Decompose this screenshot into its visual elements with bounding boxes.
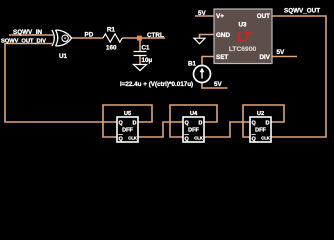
svg-text:R1: R1: [107, 27, 116, 34]
svg-text:Q: Q: [119, 137, 124, 143]
svg-text:DFF: DFF: [255, 128, 266, 134]
svg-text:CTRL: CTRL: [147, 32, 164, 39]
svg-text:5V: 5V: [277, 49, 286, 56]
svg-text:DIV: DIV: [260, 54, 271, 61]
svg-text:10µ: 10µ: [142, 57, 153, 64]
svg-text:SQWV_IN: SQWV_IN: [13, 29, 42, 36]
svg-text:D: D: [199, 121, 203, 127]
svg-text:5V: 5V: [214, 81, 223, 88]
svg-text:160: 160: [106, 45, 117, 52]
svg-text:Q: Q: [119, 121, 124, 127]
svg-text:Q: Q: [252, 121, 257, 127]
svg-text:5V: 5V: [198, 10, 207, 17]
svg-text:B1: B1: [188, 61, 197, 68]
svg-text:I=22.4u + (V(ctrl)*0.017u): I=22.4u + (V(ctrl)*0.017u): [120, 81, 193, 88]
svg-text:D: D: [133, 121, 137, 127]
svg-text:DFF: DFF: [188, 128, 199, 134]
svg-text:U4: U4: [190, 111, 198, 117]
svg-text:U5: U5: [124, 111, 131, 117]
svg-text:U1: U1: [59, 53, 68, 60]
svg-text:CLK: CLK: [194, 136, 203, 141]
svg-text:Q: Q: [185, 121, 190, 127]
svg-text:U3: U3: [238, 22, 247, 29]
svg-text:CLK: CLK: [128, 136, 137, 141]
svg-text:SET: SET: [216, 54, 228, 61]
svg-text:SQWV_OUT_DIV: SQWV_OUT_DIV: [1, 39, 46, 45]
svg-text:GND: GND: [216, 32, 230, 39]
svg-text:Q: Q: [185, 137, 190, 143]
svg-text:Q: Q: [252, 137, 257, 143]
svg-text:PD: PD: [85, 32, 94, 39]
svg-text:U2: U2: [257, 111, 264, 117]
svg-text:OUT: OUT: [257, 13, 270, 20]
svg-text:LT: LT: [237, 30, 252, 44]
svg-text:C1: C1: [142, 45, 151, 52]
svg-text:LTC6900: LTC6900: [229, 46, 257, 53]
svg-text:SQWV_OUT: SQWV_OUT: [284, 8, 320, 15]
svg-text:V+: V+: [216, 13, 224, 20]
svg-text:DFF: DFF: [122, 128, 133, 134]
svg-text:CLK: CLK: [261, 136, 270, 141]
svg-text:D: D: [266, 121, 270, 127]
